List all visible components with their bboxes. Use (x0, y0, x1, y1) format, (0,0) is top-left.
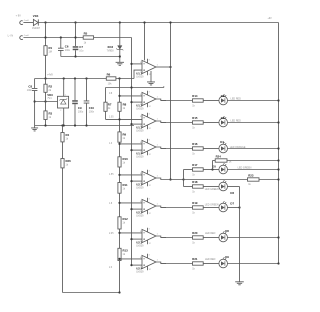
svg-text:12: 12 (149, 106, 152, 108)
junction signal bus U2.3 (130, 238, 132, 240)
wire R7 bottom to tap row (105, 111, 107, 119)
wire R7 tap to U1.3 input (106, 118, 143, 120)
wire LED D7 to ground line (228, 207, 240, 209)
resistor R16 (193, 147, 204, 150)
wire U1.1 ground stub (150, 71, 152, 82)
svg-text:+4V8: +4V8 (47, 73, 53, 76)
wire branch down (183, 180, 185, 187)
svg-text:R23: R23 (248, 174, 254, 178)
resistor R19 (193, 206, 204, 209)
wire LED D2 to +9V bus (228, 100, 279, 102)
svg-text:3: 3 (149, 255, 151, 257)
svg-text:1k: 1k (248, 183, 251, 186)
wire straight row to R23 (184, 179, 248, 181)
junction signal bus U1.2 (130, 101, 132, 103)
svg-text:R12: R12 (123, 217, 129, 221)
wire LED D6 to ground line (228, 186, 240, 188)
svg-text:100u: 100u (78, 110, 84, 113)
LED D8 (219, 231, 228, 242)
wire mid rail to opamp U1.1 input (134, 70, 142, 78)
svg-text:D7: D7 (230, 201, 234, 205)
svg-text:1k: 1k (123, 107, 126, 110)
wire VD3 box bottom pin (63, 108, 65, 126)
resistor R23 (248, 178, 260, 181)
svg-text:1k: 1k (66, 163, 69, 166)
resistor R14 (193, 99, 204, 102)
svg-text:D2: D2 (221, 94, 225, 98)
wire U2.4 output (156, 262, 166, 264)
ground below C8 (31, 128, 38, 131)
ground below XO3 (116, 62, 124, 65)
svg-text:100n: 100n (65, 49, 71, 52)
junction bus / row D2 (277, 99, 279, 101)
junction R24 branch (211, 168, 213, 170)
junction signal bus U2.2 (130, 208, 132, 210)
junction U1.1 output / bus A (169, 66, 171, 68)
resistor R18 (193, 185, 204, 188)
svg-text:R19: R19 (192, 201, 198, 205)
svg-text:1k: 1k (192, 211, 195, 214)
wire R1 branch from top rail (45, 23, 47, 46)
junction top rail / zener branch (119, 21, 121, 23)
wire C9 bottom (74, 104, 76, 125)
junction divider tap U2.4 (118, 258, 120, 260)
wire signal bus to U1.2 input (132, 101, 143, 103)
resistor R8 (118, 102, 121, 111)
svg-text:R8: R8 (123, 103, 127, 107)
wire branch row to R18 (184, 186, 193, 188)
svg-text:R5: R5 (84, 31, 88, 35)
svg-text:R7: R7 (108, 103, 112, 107)
svg-text:1k: 1k (49, 116, 52, 119)
wire divider bus segment 2 (119, 111, 121, 132)
junction lower rail / VD3 box (63, 124, 65, 126)
junction ground line / D7 (238, 206, 240, 208)
wire divider tap to U2.3 input (120, 232, 143, 234)
svg-text:C8: C8 (28, 85, 32, 89)
svg-text:1k: 1k (192, 104, 195, 107)
svg-text:1: 1 (157, 145, 159, 147)
wire signal input row after R5 (94, 37, 132, 39)
svg-text:1: 1 (65, 94, 66, 96)
wire U1.3 output (156, 121, 166, 123)
junction divider tap U1.2 (118, 95, 120, 97)
svg-text:3: 3 (149, 171, 151, 173)
svg-text:12: 12 (149, 269, 152, 271)
svg-text:R20: R20 (192, 231, 198, 235)
svg-text:D8: D8 (225, 229, 229, 233)
wire signal bus to U1.3 input (132, 123, 143, 125)
wire signal bus vertical (131, 38, 133, 266)
diode VD4 (32, 14, 41, 30)
wire op-amp supply bus from top rail (144, 23, 146, 61)
zener diode XO3 (107, 45, 124, 52)
svg-text:100n: 100n (27, 90, 33, 92)
resistor R9 (118, 132, 127, 142)
svg-text:LED GREEN: LED GREEN (205, 203, 219, 206)
svg-text:1N4007: 1N4007 (32, 28, 41, 30)
svg-text:R9: R9 (123, 132, 127, 136)
LED D3 (219, 116, 228, 127)
wire divider bus segment 1 (119, 79, 121, 103)
svg-text:R13: R13 (123, 249, 129, 253)
svg-text:R26: R26 (66, 159, 72, 163)
svg-text:D4: D4 (220, 140, 224, 144)
svg-text:R2: R2 (49, 85, 53, 89)
wire C6 to small ground rail (60, 50, 62, 56)
wire LED D4 to +9V bus (228, 148, 279, 150)
svg-text:3: 3 (149, 140, 151, 142)
resistor R2 (44, 84, 53, 92)
connector X2 (signal input) (20, 36, 23, 40)
wire C10 branch (86, 79, 88, 101)
junction lower rail / C9 (74, 124, 76, 126)
op-amp U2.2 (136, 198, 158, 218)
svg-text:R11: R11 (123, 183, 128, 187)
junction mid rail / C10 (85, 77, 87, 79)
svg-text:12: 12 (149, 185, 152, 187)
wire long left return down (62, 168, 64, 293)
op-amp U1.3 (136, 113, 158, 133)
svg-text:1k: 1k (66, 137, 69, 140)
wire U2.3 output (156, 236, 166, 238)
wire R7 top to feedback row (105, 88, 107, 103)
wire C9 branch (74, 79, 76, 101)
junction signal row / C7 branch (74, 36, 76, 38)
resistor R5 (83, 36, 93, 39)
wire signal bus to U2.4 input (132, 264, 143, 266)
wire LED D9 to +9V bus (228, 263, 279, 265)
resistor R13 (118, 248, 128, 260)
resistor R21 (193, 262, 204, 265)
wire divider tap to U2.1 input (120, 174, 143, 176)
op-amp U2.4 (136, 254, 158, 274)
junction signal bus / U1.1 input (130, 63, 132, 65)
junction bus A / U2.1 output row (169, 178, 171, 180)
svg-text:R18: R18 (192, 180, 198, 184)
resistor R1 (44, 46, 53, 56)
op-amp U1.2 (136, 91, 158, 111)
wire U1.4 output (156, 147, 166, 149)
wire divider bus segment 3 (119, 142, 121, 157)
svg-text:0.8: 0.8 (109, 93, 113, 95)
svg-text:R17: R17 (192, 163, 198, 167)
svg-text:10u: 10u (79, 49, 84, 52)
wire R24 branch row (213, 160, 216, 162)
svg-text:1.55: 1.55 (109, 174, 114, 176)
svg-text:LM339: LM339 (136, 129, 144, 132)
wire right +9V bus (278, 23, 280, 264)
junction divider tap U2.2 (118, 202, 120, 204)
wire output row D7 (161, 207, 193, 209)
op-amp U1.4 (136, 139, 158, 159)
wire C7 to small ground rail (75, 50, 77, 56)
wire C10 bottom (86, 103, 88, 125)
LED D7 (219, 201, 228, 212)
svg-text:1k: 1k (192, 173, 195, 176)
LED D9 (219, 257, 228, 268)
wire R2 top (45, 79, 47, 85)
wire bottom return (63, 292, 120, 294)
junction mid rail / VD3 box (63, 77, 65, 79)
junction signal bus U2.1 (130, 180, 132, 182)
junction divider tap U1.4 (118, 143, 120, 145)
junction bottom return / divider bus (118, 291, 120, 293)
svg-text:1.3: 1.3 (109, 143, 113, 145)
svg-text:2.05: 2.05 (109, 233, 114, 235)
wire bus A vertical (170, 23, 172, 180)
svg-text:1k: 1k (229, 161, 232, 164)
wire U1.2 output (156, 99, 166, 101)
svg-text:7V4: 7V4 (47, 98, 52, 100)
wire divider bus segment 7 (119, 261, 121, 293)
wire divider bus segment 4 (119, 167, 121, 183)
wire divider bus segment 6 (119, 229, 121, 248)
wire R18 to LED D6 (203, 186, 219, 188)
voltage reference VD3 (boxed zener) (58, 94, 69, 112)
svg-text:D6: D6 (230, 191, 234, 195)
wire zener to ground (119, 49, 121, 62)
junction bus / row D4 (277, 147, 279, 149)
junction bus / row D5 (277, 168, 279, 170)
wire output row D3 (161, 122, 193, 124)
resistor R10 (118, 157, 128, 167)
resistor R26 (61, 159, 71, 168)
junction signal bus U1.4 (130, 149, 132, 151)
capacitor C9 (72, 100, 78, 104)
svg-text:3: 3 (149, 92, 151, 94)
wire signal bus to U2.2 input (132, 208, 143, 210)
svg-text:1M: 1M (49, 51, 52, 54)
wire VD3 left pin (35, 101, 58, 103)
junction small rail / C7 (74, 55, 76, 57)
wire C7 branch (75, 23, 77, 47)
svg-text:100n: 100n (89, 110, 95, 113)
resistor R17 (193, 168, 204, 171)
svg-text:+ 9V: + 9V (16, 15, 22, 18)
wire R20 to LED D8 (203, 237, 219, 239)
LED D4 (219, 142, 228, 153)
LED D5 (219, 163, 228, 174)
junction C8 branch / VD3 left pin (34, 100, 36, 102)
wire R14 to LED D2 (203, 100, 219, 102)
junction signal row / R1 branch (44, 36, 46, 38)
junction signal row / C6 branch (60, 36, 62, 38)
wire feedback row (106, 86, 164, 87)
wire signal bus to U2.1 input (132, 180, 143, 182)
svg-text:1k: 1k (192, 190, 195, 193)
resistor R11 (118, 183, 128, 194)
wire mid supply rail right (116, 78, 134, 80)
svg-text:LM339: LM339 (136, 186, 144, 189)
svg-text:1k: 1k (123, 162, 126, 165)
junction bus / R23 row (277, 178, 279, 180)
svg-text:3: 3 (149, 199, 151, 201)
svg-text:1k: 1k (123, 187, 126, 190)
wire R4 chain top (62, 126, 64, 133)
svg-text:C10: C10 (89, 106, 95, 110)
svg-text:R21: R21 (192, 257, 198, 261)
wire mid supply rail left (35, 78, 107, 80)
svg-text:3: 3 (149, 114, 151, 116)
wire divider tap to U1.4 input (120, 143, 143, 145)
svg-text:VD3: VD3 (47, 93, 53, 97)
wire R21 to LED D9 (203, 263, 219, 265)
resistor R12 (118, 217, 128, 229)
junction small rail end (119, 55, 121, 57)
junction top rail / C7 branch (74, 21, 76, 23)
junction mid rail / C9 (74, 77, 76, 79)
resistor R3 (44, 111, 53, 120)
svg-text:R3: R3 (49, 111, 53, 115)
svg-text:2: 2 (60, 110, 61, 112)
wire output row D8 (161, 237, 193, 239)
wire from X1 to diode VD4 (23, 22, 33, 24)
junction branch node (182, 178, 184, 180)
svg-text:1.8: 1.8 (109, 203, 113, 205)
wire R24 branch up (212, 161, 214, 170)
svg-text:7V9E8: 7V9E8 (107, 50, 115, 52)
svg-text:1k: 1k (192, 267, 195, 270)
svg-text:1k: 1k (123, 222, 126, 225)
wire divider tap to U2.4 input (120, 258, 143, 260)
svg-text:1: 1 (157, 234, 159, 236)
junction divider tap U2.1 (118, 174, 120, 176)
junction bus / row D3 (277, 121, 279, 123)
wire U2.1 output (156, 178, 184, 180)
wire between R4 and R26 (62, 142, 64, 159)
svg-text:C9: C9 (78, 106, 82, 110)
wire small ground rail (61, 56, 120, 58)
op-amp U1.1 (136, 59, 158, 79)
svg-text:XO3: XO3 (107, 45, 113, 49)
wire output row D4 (161, 148, 193, 150)
svg-text:2.3: 2.3 (109, 267, 113, 269)
wire R1 to mid rail (45, 55, 47, 78)
wire branch up (183, 170, 185, 180)
wire R16 to LED D4 (203, 148, 219, 150)
svg-text:1k: 1k (84, 41, 87, 44)
svg-text:1: 1 (157, 119, 159, 121)
wire signal input row (23, 37, 83, 39)
svg-text:LM339: LM339 (136, 107, 144, 110)
svg-text:2k: 2k (49, 89, 52, 92)
svg-text:LED RED: LED RED (205, 258, 216, 261)
svg-text:1: 1 (157, 260, 159, 262)
wire lower reference rail (35, 125, 134, 127)
svg-text:1.05: 1.05 (109, 117, 114, 119)
wire LED D5 to +9V bus (228, 169, 279, 171)
wire R2 to R3 (45, 92, 47, 111)
junction signal bus U1.3 (130, 123, 132, 125)
wire divider tap to U2.2 input (120, 202, 143, 204)
resistor R24 (215, 159, 227, 162)
svg-text:Con8: Con8 (24, 35, 30, 37)
wire R23 to +9V bus (259, 179, 279, 181)
wire R24 to +9V bus (227, 160, 279, 162)
wire LED D3 to +9V bus (228, 122, 279, 124)
svg-text:12: 12 (149, 213, 152, 215)
resistor R6 (106, 77, 116, 80)
svg-text:1: 1 (157, 204, 159, 206)
wire R17 to LED D5 (203, 169, 219, 171)
LED D6 (219, 180, 228, 191)
svg-text:LED GREEN: LED GREEN (205, 188, 219, 191)
junction VD3 left pin / R2-R3 node (44, 100, 46, 102)
svg-text:1k: 1k (192, 126, 195, 129)
junction divider tap U1.3 (118, 118, 120, 120)
svg-text:R14: R14 (192, 94, 198, 98)
svg-text:LM339: LM339 (136, 75, 144, 78)
svg-text:12: 12 (149, 154, 152, 156)
svg-text:LM339: LM339 (136, 244, 144, 247)
junction lower rail / R3 (44, 124, 46, 126)
wire U2.2 output (156, 206, 166, 208)
svg-text:R1: R1 (49, 46, 53, 50)
svg-text:R6: R6 (107, 72, 111, 76)
svg-text:12: 12 (149, 128, 152, 130)
capacitor C10 (84, 101, 90, 103)
wire C8 down to ground (34, 91, 36, 128)
wire LED D8 to +9V bus (228, 237, 279, 239)
wire divider tap to U1.2 input (120, 95, 143, 97)
svg-text:R16: R16 (192, 142, 198, 146)
wire top +9V rail (38, 22, 278, 24)
svg-text:1: 1 (157, 97, 159, 99)
svg-text:LED RED: LED RED (205, 232, 216, 235)
svg-text:4k: 4k (108, 107, 111, 110)
svg-text:+9V: +9V (268, 18, 273, 20)
wire signal bus to U1.4 input (132, 149, 143, 151)
junction bus / R24 row (277, 159, 279, 161)
junction bus / row D9 (277, 262, 279, 264)
svg-text:3: 3 (149, 229, 151, 231)
ground below LED line (235, 282, 244, 285)
junction mid rail / R1 (44, 77, 46, 79)
connector X1 (+9V input) (20, 21, 23, 25)
op-amp U2.1 (136, 170, 158, 190)
svg-text:1: 1 (157, 176, 159, 178)
resistor R7 (104, 102, 107, 111)
wire C8 from mid rail (34, 79, 36, 89)
junction bus / row D8 (277, 236, 279, 238)
junction mid rail / divider top (118, 77, 120, 79)
wire signal bus to U2.3 input (132, 238, 143, 240)
junction divider tap U2.3 (118, 232, 120, 234)
wire output row D9 (161, 263, 193, 265)
svg-text:1k: 1k (192, 152, 195, 155)
wire divider bus segment 5 (119, 193, 121, 217)
svg-text:1: 1 (157, 65, 159, 67)
svg-text:D9: D9 (225, 255, 229, 259)
wire branch row to R17 (184, 169, 193, 171)
svg-text:VD4: VD4 (33, 14, 39, 18)
wire C6 branch (60, 38, 62, 49)
svg-text:R10: R10 (123, 157, 129, 161)
wire U1.1 input from signal bus (132, 63, 143, 65)
svg-text:1k: 1k (123, 137, 126, 140)
wire R19 to LED D7 (203, 207, 219, 209)
svg-text:3: 3 (149, 60, 151, 62)
wire LED cathode ground line (239, 187, 241, 282)
svg-text:L- IN: L- IN (8, 34, 14, 37)
wire R3 bottom (45, 120, 47, 126)
ground below U1.1 (147, 82, 155, 85)
svg-text:R24: R24 (216, 155, 222, 159)
junction top rail / supply bus (143, 21, 145, 23)
resistor R4 (61, 133, 70, 142)
LED D2 (219, 94, 228, 105)
